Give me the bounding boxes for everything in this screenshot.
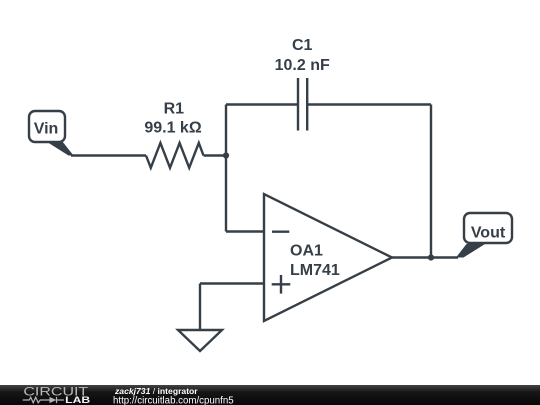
op-amp OA1 triangle: [264, 194, 392, 321]
wire Vin to R1: [71, 154, 146, 156]
wire to ground: [199, 284, 201, 331]
wire node to C1 left plate: [226, 103, 298, 105]
wire op-amp non-inverting input: [200, 282, 264, 284]
svg-text:10.2 nF: 10.2 nF: [275, 57, 330, 74]
wire C1 right plate to right vertical: [307, 103, 431, 105]
svg-text:99.1 kΩ: 99.1 kΩ: [144, 120, 201, 137]
svg-text:Vout: Vout: [471, 225, 506, 242]
wire to op-amp inverting input: [226, 230, 264, 232]
svg-text:Vin: Vin: [34, 121, 59, 138]
node A junction dot: [223, 152, 229, 158]
wire op-amp output to Vout: [392, 256, 458, 258]
wire vertical inverting-node: [225, 105, 227, 232]
svg-text:http://circuitlab.com/cpunfn5: http://circuitlab.com/cpunfn5: [113, 396, 234, 405]
svg-text:LM741: LM741: [290, 262, 340, 279]
capacitor C1: [298, 78, 307, 131]
svg-text:zackj731 / integrator: zackj731 / integrator: [114, 386, 198, 396]
ground: [178, 330, 222, 351]
resistor R1: [146, 143, 204, 168]
Vin flag: [29, 111, 74, 156]
svg-text:OA1: OA1: [290, 243, 323, 260]
op-amp minus symbol: [272, 230, 289, 232]
svg-text:C1: C1: [292, 37, 313, 54]
node B junction dot: [428, 254, 434, 260]
wire R1 to node A: [204, 154, 227, 156]
Vout flag: [456, 213, 512, 258]
CircuitLab logo wire-resistor-diode: [23, 397, 64, 403]
footer bar: [0, 385, 540, 405]
wire right vertical feedback: [430, 105, 432, 258]
svg-text:R1: R1: [164, 101, 185, 118]
op-amp plus symbol: [272, 275, 291, 294]
svg-text:LAB: LAB: [65, 395, 90, 405]
